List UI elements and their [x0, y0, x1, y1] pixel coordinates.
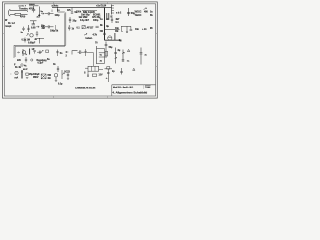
svg-text:belast.: belast. — [86, 37, 93, 40]
wire stack — [107, 69, 109, 82]
wire drop a — [84, 11, 86, 14]
wire relay in — [85, 67, 88, 69]
bracket gamma — [72, 51, 78, 55]
capacitor C26 — [120, 72, 123, 73]
ground symbol G2 — [67, 79, 69, 80]
capacitor C17 — [39, 51, 40, 54]
title block top edge — [112, 84, 156, 86]
node small circle — [31, 59, 33, 61]
svg-text:AF117: AF117 — [87, 26, 95, 29]
speaker LS1 — [41, 74, 46, 79]
node rail junction — [57, 7, 58, 8]
svg-text:350V: 350V — [33, 76, 39, 79]
capacitor C6 — [45, 12, 54, 15]
wire right mid — [121, 25, 131, 27]
svg-text:an 2: an 2 — [23, 69, 28, 71]
svg-text:1962: 1962 — [146, 87, 150, 89]
wire C1 drop — [33, 6, 35, 9]
svg-text:10n: 10n — [135, 28, 140, 31]
diode D1 arrow — [36, 26, 39, 28]
svg-text:Mod 512 – Ser.B – Bl.1: Mod 512 – Ser.B – Bl.1 — [113, 87, 134, 89]
transformer T3 frame — [97, 49, 105, 64]
wire chain b — [81, 51, 84, 53]
choke L2 arrow — [21, 70, 23, 72]
shield left edge double line — [14, 45, 15, 58]
right ladder wire 1 — [105, 42, 107, 59]
transformer T3 left leg — [96, 46, 98, 64]
capacitor C27 — [57, 68, 59, 69]
relay K1 box — [88, 66, 99, 71]
wire second rail — [82, 10, 97, 12]
wire right top drop — [128, 8, 130, 16]
svg-text:100p: 100p — [93, 19, 99, 22]
svg-text:Empf.: Empf. — [6, 26, 13, 28]
svg-text:mave: mave — [29, 4, 35, 6]
diode D5 arrow — [126, 31, 128, 33]
diode D4 arrow — [144, 8, 147, 10]
chain arrow into shield — [66, 51, 69, 53]
diode D7 arrow — [115, 57, 117, 59]
wire bottom v1 — [57, 66, 59, 72]
transistor Q1 emitter arrow — [25, 53, 27, 54]
capacitor C9 — [69, 19, 71, 20]
wire bus branch — [105, 29, 120, 31]
capacitor C22 — [114, 52, 117, 53]
wire bottom v2 — [61, 70, 63, 79]
svg-text:Tonabn. 470k: Tonabn. 470k — [19, 7, 35, 10]
shield horizontal double line — [14, 45, 66, 46]
potentiometer P2 wiper arrow — [38, 14, 41, 16]
component X1 box — [46, 50, 49, 53]
wire top supply rail — [52, 7, 112, 9]
capacitor C1 — [32, 9, 35, 12]
svg-text:+ -: + - — [106, 78, 109, 80]
svg-text:0.1µF: 0.1µF — [38, 63, 44, 65]
svg-text:an Kl. 7: an Kl. 7 — [19, 6, 27, 8]
svg-text:OC72: OC72 — [64, 71, 71, 73]
wire V4 down — [55, 77, 57, 80]
capacitor C28 column — [67, 72, 69, 78]
wire grid line — [35, 38, 44, 40]
svg-text:½ECC: ½ECC — [135, 9, 142, 13]
svg-text:1M: 1M — [115, 30, 118, 33]
svg-text:0.05µF: 0.05µF — [28, 41, 36, 44]
potentiometer P4 arrow — [84, 33, 87, 35]
component C16 — [33, 50, 35, 53]
transistor Q1 envelope — [22, 51, 25, 54]
capacitor C19 — [80, 50, 81, 54]
wire drop x127 — [126, 26, 128, 33]
capacitor C11 on bus — [103, 33, 106, 34]
wire input lower — [10, 13, 15, 15]
diode D6 arrow — [41, 50, 43, 52]
zone tick bottom 2 — [107, 96, 109, 98]
wire inner chain — [37, 51, 42, 53]
capacitor C7 — [45, 25, 54, 28]
svg-text:4700: 4700 — [20, 16, 26, 19]
wire main bus vertical — [104, 8, 106, 41]
svg-text:0.1µ 4k7: 0.1µ 4k7 — [80, 19, 90, 22]
component M1 box with diagonal — [82, 26, 85, 29]
tube V1 envelope — [30, 34, 33, 37]
wire T1 top stub — [29, 5, 39, 7]
border frame inner — [4, 4, 155, 96]
svg-text:12V: 12V — [99, 74, 103, 76]
node grid junction — [39, 38, 40, 39]
meter M2 circle — [15, 71, 18, 74]
component C18 — [25, 57, 27, 63]
label C6 tick — [51, 10, 53, 13]
connector P1 pin stubs — [112, 6, 115, 14]
svg-text:0.05: 0.05 — [31, 27, 36, 30]
component stack box — [107, 67, 110, 69]
wire input upper end tick — [27, 11, 29, 12]
zone tick top 2 — [107, 2, 109, 4]
connector tail vertical — [111, 17, 113, 23]
input bracket J1 — [9, 10, 11, 16]
wire right col 2 — [121, 68, 123, 75]
relay K1 divider 2 — [94, 66, 96, 71]
svg-text:½ECC: ½ECC — [135, 13, 142, 17]
title block left edge — [111, 85, 113, 96]
zone tick bottom 1 — [53, 96, 55, 98]
resistor R5 — [114, 33, 116, 40]
resistor R7 — [92, 74, 96, 76]
wire drop b — [90, 11, 92, 14]
node circle b1 — [21, 64, 23, 66]
potentiometer P3 arrow — [27, 33, 29, 36]
bracket right mid — [121, 26, 123, 31]
relay K1 divider 1 — [91, 66, 93, 71]
wire into shield top — [58, 11, 65, 13]
wire bus bottom branch — [105, 39, 122, 41]
capacitor C24 — [140, 53, 143, 54]
component box b2 — [26, 73, 29, 75]
svg-text:+ 2x: + 2x — [142, 28, 147, 31]
transistor Q2 arrow — [122, 52, 124, 54]
wire grid drop — [39, 39, 41, 44]
choke L2 body — [21, 70, 23, 79]
right ladder wire 3 — [122, 50, 124, 63]
capacitor C12 — [111, 19, 113, 20]
wire rail drop center — [57, 8, 59, 13]
capacitor C29 — [87, 71, 88, 77]
wire V1 anode riser — [28, 25, 30, 32]
wire relay out — [99, 68, 103, 70]
ground symbol G1 — [55, 81, 57, 82]
wire T2 stub — [30, 20, 37, 22]
svg-text:100p: 100p — [55, 15, 61, 17]
wire bottom right bus — [105, 68, 113, 70]
label Q1 left arrow — [18, 52, 21, 54]
shield right edge double line — [65, 12, 66, 46]
capacitor C13 — [96, 26, 99, 27]
wire input upper — [10, 10, 28, 12]
transistor Q1 lead — [22, 49, 24, 56]
border frame outer — [3, 2, 158, 98]
svg-text:4Ω: 4Ω — [48, 77, 51, 80]
wire chain c — [87, 51, 93, 53]
svg-text:a b 2: a b 2 — [116, 12, 122, 15]
svg-text:mA: mA — [15, 76, 19, 79]
capacitor C8 — [71, 12, 73, 13]
wire chain a — [78, 51, 80, 53]
capacitor C30 column — [56, 50, 58, 57]
resistor R1 — [15, 13, 21, 15]
tube V4 envelope — [54, 74, 57, 77]
wire R1 out — [21, 13, 28, 15]
capacitor C10 — [68, 25, 70, 31]
diode D2 arrow — [41, 13, 44, 15]
capacitor C4 on riser — [27, 28, 29, 29]
title block divider — [143, 85, 145, 89]
capacitor C2 — [32, 24, 35, 25]
capacitor C23 — [122, 60, 125, 61]
symbol delta 1 — [127, 49, 129, 51]
wire drop x72 — [71, 8, 73, 12]
zone tick top 1 — [53, 2, 55, 4]
wire small col55 — [55, 25, 57, 31]
transistor Q3 arrow — [62, 73, 64, 75]
node bus junction — [104, 29, 105, 30]
wire riser pot — [38, 7, 40, 18]
tube V3 grid — [108, 37, 111, 39]
tube V3 envelope — [108, 36, 112, 40]
svg-text:C-MB2546-78 312-05: C-MB2546-78 312-05 — [75, 86, 96, 89]
diode D3 arrow — [41, 26, 44, 28]
svg-text:a.Netz: a.Netz — [52, 5, 60, 8]
svg-text:Kl. 1-2: Kl. 1-2 — [8, 22, 16, 25]
svg-text:Regelspg: Regelspg — [37, 60, 48, 62]
capacitor C14 dark — [127, 12, 130, 13]
capacitor C20 column — [84, 49, 87, 56]
title block small right text — [145, 86, 150, 88]
capacitor C5 column — [36, 31, 38, 37]
resistor R6 vertical — [29, 49, 31, 55]
right ladder wire 2 — [115, 48, 117, 64]
svg-text:4.7k: 4.7k — [93, 33, 98, 36]
IF transformer T2 core lines — [107, 13, 109, 20]
wire chain to relay — [93, 52, 95, 66]
component PSU box — [105, 51, 108, 56]
wire column c2 — [69, 17, 71, 23]
right ladder wire 4 — [140, 48, 142, 65]
wire mid-left drop — [24, 38, 26, 43]
svg-text:0.1µ: 0.1µ — [58, 84, 63, 86]
connector P1 spine — [111, 5, 113, 15]
svg-text:4. Allgemeines Schaltbild: 4. Allgemeines Schaltbild — [112, 91, 147, 95]
capacitor C25 — [107, 73, 110, 74]
capacitor C15 — [130, 26, 133, 30]
capacitor C3 mid-left — [22, 27, 24, 31]
zone tick left lower — [3, 66, 5, 68]
zone tick right lower — [156, 66, 158, 68]
symbol delta 2 — [133, 68, 135, 70]
svg-text:+2x EL84: +2x EL84 — [96, 4, 107, 7]
svg-text:100p 2k: 100p 2k — [50, 31, 59, 33]
meter M2 needle — [15, 72, 18, 75]
capacitor C21 — [105, 44, 108, 45]
wire C2 drop — [32, 21, 34, 24]
zone tick right upper — [156, 33, 158, 35]
ground symbol G3 — [26, 77, 28, 78]
zone tick left upper — [3, 33, 5, 35]
svg-text:Kl. 4b: Kl. 4b — [15, 66, 22, 69]
